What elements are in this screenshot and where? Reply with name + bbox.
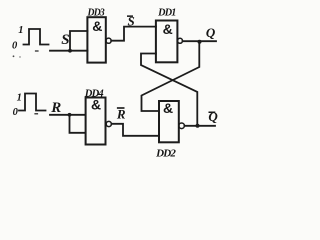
- inverter bubble DD2 output: [179, 123, 185, 129]
- inverter bubble DD3 output: [106, 38, 111, 43]
- svg-text:Q: Q: [206, 25, 216, 40]
- wire S input to DD3 lower input: [50, 50, 87, 52]
- wire branch to DD3 upper input: [70, 31, 87, 51]
- wire stub left of R: [35, 113, 38, 115]
- svg-text:0: 0: [13, 107, 19, 118]
- svg-text:R: R: [116, 107, 126, 122]
- svg-text:&: &: [163, 21, 173, 37]
- inverter bubble DD1 output: [178, 38, 183, 43]
- inverter bubble DD4 output: [106, 121, 111, 126]
- node R-bar label: [116, 107, 126, 122]
- wire Q-bar output: [184, 125, 215, 127]
- junction on Q-bar wire: [196, 124, 200, 128]
- node S-bar label: [127, 13, 135, 28]
- paper speckle: [13, 55, 15, 57]
- wire Q output: [183, 40, 217, 42]
- NAND gate DD3 body: [87, 17, 105, 62]
- svg-text:DD3: DD3: [87, 7, 105, 18]
- wire R-bar from DD4 output to DD2 lower input: [111, 124, 159, 136]
- NAND gate DD1 body: [156, 21, 178, 63]
- paper speckle: [19, 56, 20, 57]
- wire stub left of S: [36, 50, 39, 52]
- wire R input to DD4 upper input: [50, 114, 86, 116]
- junction on S input wire: [68, 49, 72, 53]
- svg-text:DD2: DD2: [155, 149, 176, 160]
- node Q-bar output label: [208, 109, 218, 124]
- svg-text:1: 1: [18, 25, 23, 36]
- wire S-bar from DD3 output to DD1 upper input: [111, 27, 156, 41]
- svg-text:S: S: [61, 32, 69, 48]
- NAND gate DD4 body: [86, 98, 106, 145]
- svg-text:&: &: [163, 100, 173, 116]
- wire Q feedback to DD2 upper input: [142, 42, 200, 111]
- input pulse waveform at R (logic levels 1/0): [19, 94, 46, 111]
- svg-text:0: 0: [12, 40, 18, 51]
- svg-text:&: &: [92, 18, 102, 34]
- svg-text:DD4: DD4: [84, 88, 104, 99]
- svg-text:Q: Q: [208, 109, 218, 124]
- svg-text:1: 1: [17, 92, 22, 103]
- input pulse waveform at S (logic levels 1/0): [24, 29, 49, 45]
- NAND gate DD2 body: [159, 101, 179, 142]
- junction on Q wire: [198, 40, 202, 44]
- wire Q-bar feedback to DD1 lower input: [141, 54, 197, 126]
- svg-text:R: R: [50, 100, 61, 116]
- wire branch to DD4 lower input: [70, 115, 86, 133]
- junction on R input wire: [68, 113, 72, 117]
- svg-text:DD1: DD1: [157, 8, 175, 19]
